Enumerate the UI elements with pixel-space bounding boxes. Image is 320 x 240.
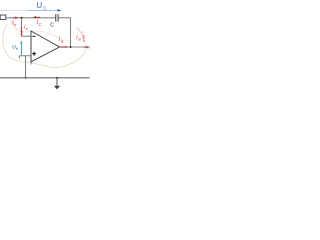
svg-text:U: U — [36, 1, 42, 10]
current loop (pink, upper band) — [11, 20, 17, 30]
svg-text:C: C — [50, 23, 54, 29]
voltage arrow U_C (blue, across top) — [1, 10, 2, 11]
svg-text:e: e — [26, 27, 28, 31]
node: ground tap — [56, 77, 58, 79]
output wire — [60, 46, 91, 48]
node: feedback/output junction — [70, 46, 72, 48]
loop arrowhead (teal, faint, right side) — [82, 30, 84, 33]
wire stub below op-amp + corner — [30, 62, 32, 65]
op-amp plus sign — [32, 53, 36, 55]
current arrow i_C (red, on feedback wire, leftward) — [35, 16, 40, 18]
current loop (pink, right arc) — [77, 28, 84, 39]
current arrow at output end (red, rightward) — [84, 46, 86, 48]
wire: non-inverting input run — [19, 55, 31, 57]
ground rail (bottom wire) — [0, 77, 90, 79]
node: top junction — [21, 17, 23, 19]
svg-text:C: C — [39, 22, 42, 27]
wire: drop to ground rail — [25, 56, 27, 78]
op-amp U1 triangle — [31, 31, 60, 62]
current arrow (red, downward, near output) — [83, 35, 85, 40]
wire: resistor to capacitor — [6, 17, 56, 19]
op-amp minus sign — [32, 35, 35, 37]
ground symbol — [56, 78, 58, 86]
resistor R (top-left box) — [0, 15, 6, 20]
current loop (pink, output tail) — [85, 47, 91, 50]
wire: junction down to inverting input — [22, 19, 32, 37]
current loop (green, outer) — [3, 25, 85, 68]
current arrow i2 (red, downward on vertical wire) — [21, 26, 23, 30]
node: rail junction — [25, 77, 27, 79]
current loop (green, right faint rise) — [84, 32, 86, 51]
current arrow i_a (red, on output wire) — [60, 46, 65, 48]
wire: capacitor to output column — [58, 18, 71, 47]
voltage arrow u_e (teal, upward) — [20, 44, 22, 55]
current arrow i1 (red, on top wire, rightward) — [13, 17, 16, 19]
terminal stub at left end — [18, 56, 20, 58]
capacitor C plates — [55, 14, 57, 22]
